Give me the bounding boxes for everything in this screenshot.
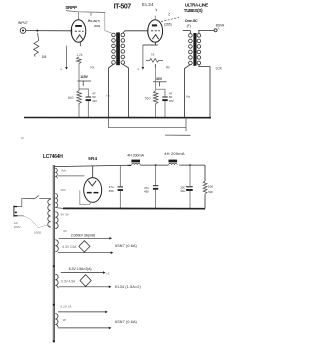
resistor R5 V2 cathode 560 <box>153 91 158 106</box>
svg-text:(265): (265) <box>164 22 171 26</box>
tube V2 grid <box>151 30 160 32</box>
node core dot 1 <box>53 265 55 267</box>
wire R3 to ground bus <box>78 106 80 118</box>
tube V1 cathode <box>76 35 83 40</box>
wire V2 to R5 <box>155 64 157 91</box>
voltage label 115V <box>78 75 92 86</box>
resistor R6 bleeder <box>203 181 207 195</box>
node core dot 2 <box>53 304 55 306</box>
wire V2 plate to T2 <box>183 30 191 32</box>
svg-text:10K: 10K <box>208 185 213 189</box>
twist diamond G3 <box>79 241 90 252</box>
svg-text:×2: ×2 <box>106 271 110 275</box>
wire R6 to bus <box>204 195 206 209</box>
svg-text:450: 450 <box>144 189 149 193</box>
wire V1 cathode lead <box>79 42 81 46</box>
svg-text:0Vu: 0Vu <box>61 169 67 173</box>
wire T2 secondary top to terminal <box>199 30 214 33</box>
svg-text:A: A <box>218 27 220 31</box>
wire HV bottom to PSU bus <box>56 207 63 210</box>
annotation dashed leader <box>161 17 179 21</box>
wire T2 primary top <box>189 31 191 34</box>
svg-text:0V: 0V <box>63 229 67 233</box>
svg-text:6.3V 1A: 6.3V 1A <box>60 305 72 309</box>
wire rail end down <box>204 165 206 181</box>
wire SRPP leader / plate rail <box>66 11 105 13</box>
wire V1 cathode down <box>78 64 80 91</box>
capacitor C5 lead <box>189 165 191 186</box>
svg-text:100V: 100V <box>14 225 21 229</box>
svg-text:EL34: EL34 <box>142 2 154 7</box>
B+ rail <box>54 165 205 167</box>
svg-text:1M: 1M <box>42 55 47 59</box>
tube V2 plate <box>152 24 157 26</box>
choke CH1 <box>131 160 140 165</box>
wire cap C1 top link <box>79 89 88 96</box>
svg-text:6SN7 (0.6A): 6SN7 (0.6A) <box>115 244 137 248</box>
value label C2 <box>169 91 174 103</box>
wire V2 cathode horizontal <box>143 44 158 46</box>
annotation mark x <box>88 20 90 21</box>
value label C3 <box>109 185 114 193</box>
svg-text:LCK: LCK <box>216 66 223 70</box>
svg-text:115V: 115V <box>80 75 88 79</box>
transformer T3 6.3V winding A <box>55 240 58 252</box>
tube V2 grid entry bar <box>147 28 149 34</box>
capacitor C3 lead <box>119 165 121 186</box>
svg-text:1k: 1k <box>151 53 155 57</box>
input jack J1 <box>20 28 26 34</box>
svg-text:100Ω: 100Ω <box>34 230 42 234</box>
transformer T2 output core <box>193 33 196 66</box>
current arrow V1 <box>60 46 68 71</box>
svg-text:Rk: Rk <box>166 66 170 70</box>
ground bus PSU <box>63 207 205 209</box>
tube V1 envelope <box>71 20 86 42</box>
wire cap C2 top link <box>156 89 165 96</box>
transformer T2 primary coil <box>189 34 193 65</box>
svg-text:TUBES(S): TUBES(S) <box>184 8 203 13</box>
node tick on plate wire <box>90 13 92 16</box>
heater wire G3 top <box>59 237 113 240</box>
wire HV tap to plate <box>58 175 84 177</box>
svg-text:10V: 10V <box>60 188 65 192</box>
svg-text:LC7464H: LC7464H <box>43 154 63 160</box>
annotation mark above V2 <box>155 9 158 11</box>
switch SW1 <box>24 196 51 199</box>
current arrow V2 <box>137 45 144 71</box>
svg-text:Rk: Rk <box>90 66 94 70</box>
svg-text:2.000kV 3A(mA): 2.000kV 3A(mA) <box>71 233 95 237</box>
node input junction dot <box>36 30 38 32</box>
transformer T2 secondary coil <box>197 34 201 65</box>
wire switch to primary top <box>50 198 52 199</box>
value label R6 <box>208 185 213 194</box>
svg-text:10C: 10C <box>180 189 185 193</box>
svg-text:6.3V 2.5A: 6.3V 2.5A <box>62 245 77 249</box>
node rail cap3 dot <box>189 164 191 166</box>
transformer T3 6.3V winding B <box>55 274 58 288</box>
svg-text:560: 560 <box>145 97 151 101</box>
svg-text:One-5C: One-5C <box>185 18 198 23</box>
svg-text:INPUT: INPUT <box>18 21 28 25</box>
capacitor C5 <box>186 186 193 191</box>
rectifier filament <box>88 181 96 186</box>
wire C3 to bus <box>119 191 121 208</box>
transformer T1 secondary coil <box>121 33 125 64</box>
AC plug PL1 <box>14 206 18 217</box>
voltage label 36V <box>153 77 166 86</box>
label AC <box>14 221 21 229</box>
resistor R3 V1 cathode 560 <box>77 91 82 106</box>
wire plug to switch <box>17 199 23 207</box>
tube V1 plate <box>75 25 82 27</box>
svg-text:WV: WV <box>169 99 174 103</box>
node core dot 3 (ground) <box>53 340 55 342</box>
svg-text:IT-507: IT-507 <box>114 3 132 10</box>
svg-text:1P: 1P <box>62 318 66 322</box>
resistor R1 grid leak (diagonal) <box>34 33 39 57</box>
tube V1 grid <box>75 30 84 32</box>
wire T1 primary bottom to bus <box>109 64 114 117</box>
resistor R4 V2 cathode upper <box>146 58 163 62</box>
tube V2 cathode <box>152 35 158 40</box>
wire neutral to primary <box>24 216 51 228</box>
transformer T3 5V winding <box>55 212 58 229</box>
transformer T3 6.3V winding C <box>55 314 58 328</box>
capacitor C4 lead <box>155 165 157 185</box>
svg-text:4H 200mA: 4H 200mA <box>127 153 144 157</box>
svg-text:20k+8k(T): 20k+8k(T) <box>88 19 100 23</box>
svg-text:4H 200mA: 4H 200mA <box>164 151 185 156</box>
ground bar <box>165 134 191 136</box>
svg-text:6.3V 4.5A: 6.3V 4.5A <box>61 280 76 284</box>
rectifier U1 envelope <box>84 178 102 203</box>
wire C1 to ground bus <box>87 101 89 117</box>
rectifier plates <box>87 192 99 194</box>
node rail cap2 dot <box>155 164 157 166</box>
svg-text:30V: 30V <box>156 77 163 81</box>
node tick below R4 <box>154 64 156 67</box>
wire down to interstage primary <box>105 12 112 33</box>
heater wire G4 top <box>61 271 106 274</box>
choke CH2 <box>169 160 178 165</box>
value label C1 47u 50V <box>92 91 97 103</box>
svg-text:450: 450 <box>109 189 114 193</box>
svg-text:560: 560 <box>68 96 74 100</box>
heater wire G5 bottom <box>58 327 111 330</box>
wire T1 secondary top to V2 grid <box>123 31 148 33</box>
wire rectifier top to rail <box>92 166 94 178</box>
heater wire G4 bottom <box>59 286 112 289</box>
svg-text:5W: 5W <box>208 190 213 194</box>
svg-text:EL34 (1.5A×2): EL34 (1.5A×2) <box>115 285 141 289</box>
wire T2 primary bottom to bus <box>185 65 191 118</box>
capacitor C3 <box>118 186 123 191</box>
wire V2 cathode lead <box>154 42 156 45</box>
wire C5 to bus <box>189 191 191 209</box>
svg-text:Ma: Ma <box>186 94 190 98</box>
wire ground link right drop <box>185 118 187 132</box>
svg-text:1.2k: 1.2k <box>76 53 82 57</box>
svg-text:6.3V 1.5A×2(A): 6.3V 1.5A×2(A) <box>69 267 92 271</box>
value label C4 <box>144 186 149 194</box>
svg-text:SRPP: SRPP <box>65 5 77 10</box>
wire T2 secondary bottom to bus <box>199 65 210 118</box>
svg-text:5R4: 5R4 <box>88 156 97 161</box>
wire C4 to bus <box>155 190 157 209</box>
twist diamond G4 <box>80 275 91 287</box>
wire input to V1 grid <box>26 30 72 32</box>
wire T1 secondary bottom to bus <box>123 64 129 117</box>
svg-text:(600): (600) <box>94 24 100 28</box>
tube V1 grid entry bar <box>71 28 73 34</box>
svg-text:5V 3A: 5V 3A <box>61 212 69 216</box>
svg-text:6SN7 (0.6A): 6SN7 (0.6A) <box>115 320 137 324</box>
transformer T3 primary winding <box>48 199 51 227</box>
heater wire G5 top <box>58 311 108 314</box>
tube V2 envelope <box>148 20 163 42</box>
transformer T1 primary coil <box>112 33 116 64</box>
heater wire G3 bottom <box>58 251 113 254</box>
annotation mark <box>168 13 169 16</box>
wire ground link horizontal <box>109 127 187 129</box>
wire R5 to ground bus <box>155 106 157 117</box>
wire lower plate lead <box>80 190 92 204</box>
svg-text:WV: WV <box>92 99 97 103</box>
transformer T3 HV winding <box>55 168 57 178</box>
terminal SP <box>214 29 217 32</box>
wire C2 to ground bus <box>164 101 166 117</box>
wire ground link left drop <box>108 118 110 128</box>
wire plate lead V1 up <box>78 12 80 20</box>
svg-text:(F): (F) <box>187 24 191 28</box>
transformer T1 interstage core <box>116 32 120 65</box>
capacitor C1 V1 bypass <box>86 97 91 102</box>
capacitor C2 V2 bypass <box>162 97 167 102</box>
capacitor C4 <box>153 185 158 190</box>
wire plug neutral <box>17 215 23 217</box>
value label C5 <box>180 186 185 194</box>
transformer T3 power core <box>53 165 54 342</box>
resistor R2 V1 cathode upper <box>76 57 81 64</box>
wire V2 plate lead up <box>154 16 156 20</box>
ground bus amp <box>24 117 211 119</box>
